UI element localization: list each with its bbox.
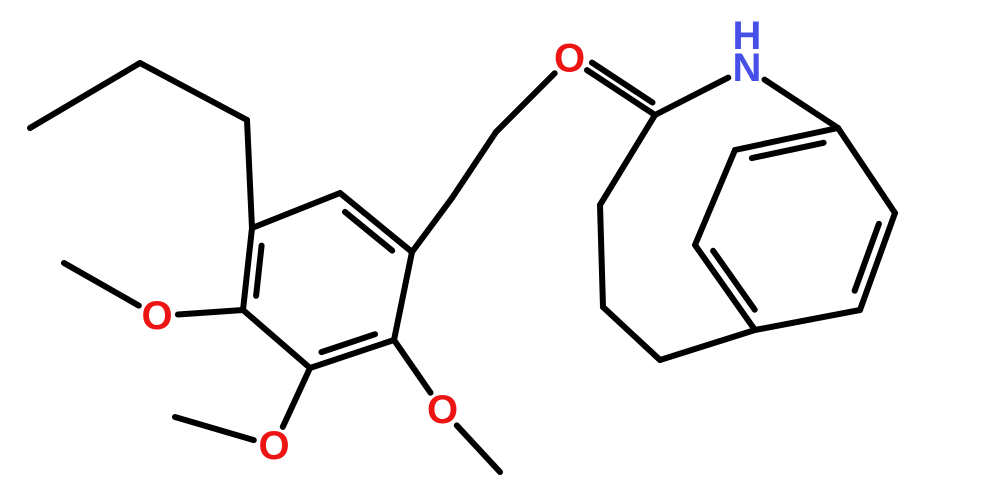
svg-text:O: O: [258, 424, 289, 468]
svg-text:O: O: [554, 37, 585, 81]
svg-text:O: O: [141, 294, 172, 338]
svg-text:O: O: [427, 388, 458, 432]
svg-text:H: H: [733, 14, 762, 58]
